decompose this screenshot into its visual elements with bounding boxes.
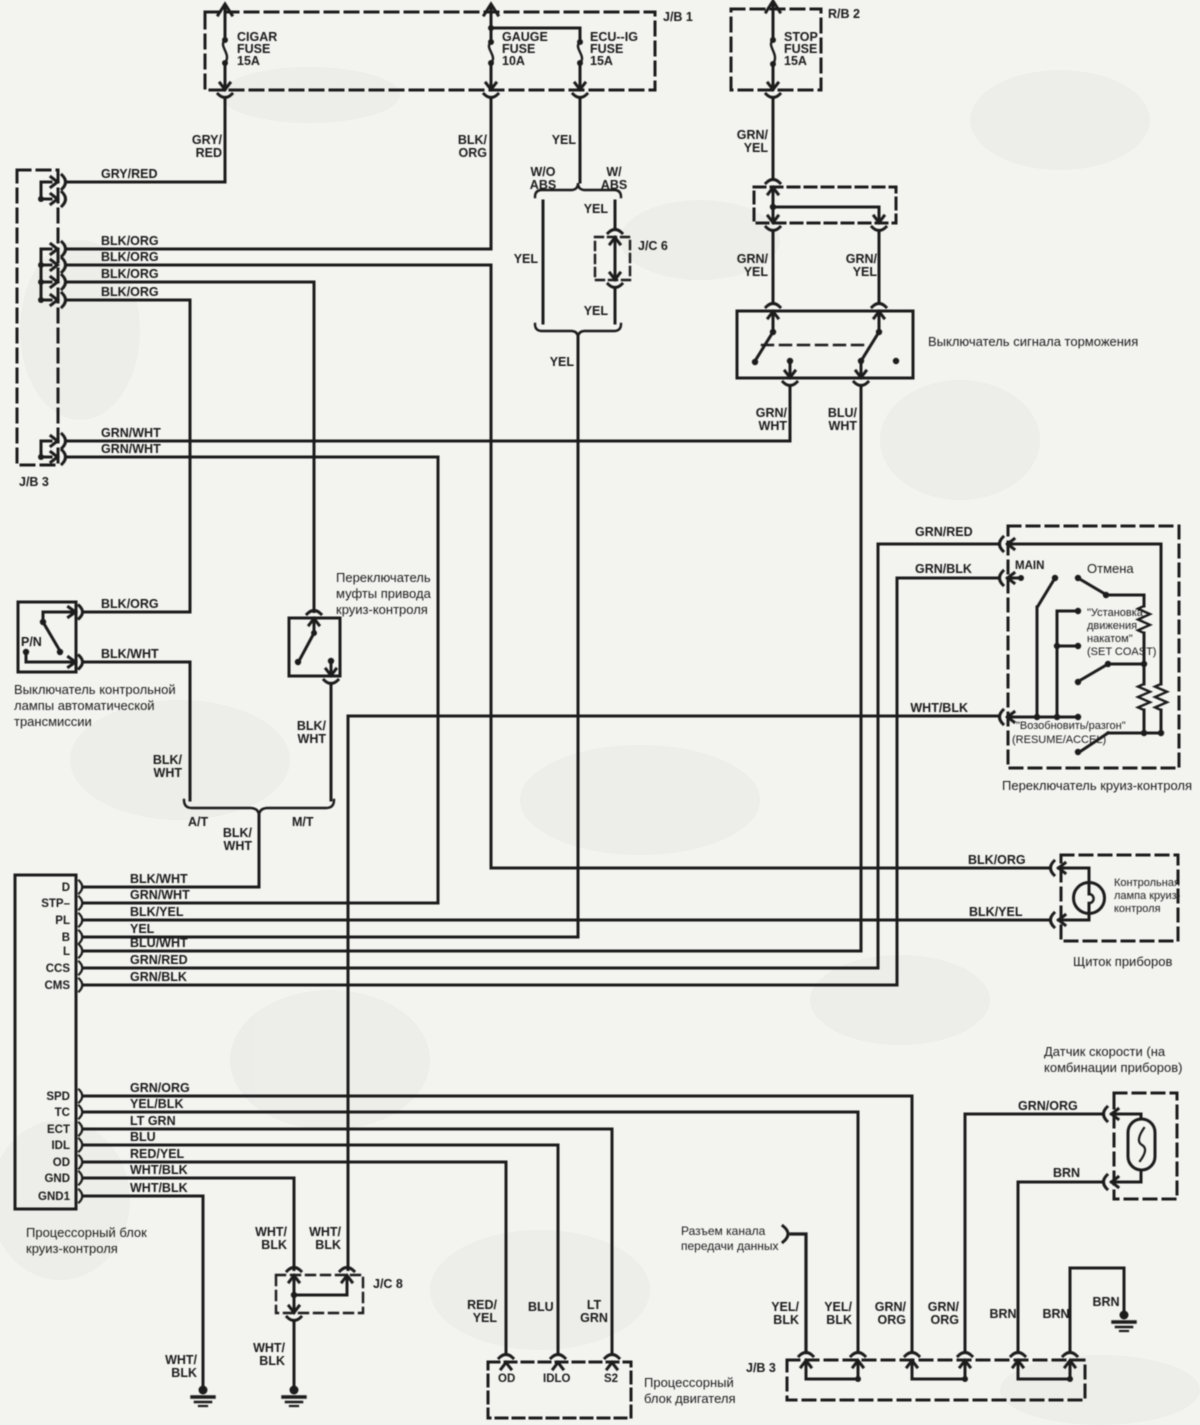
svg-text:Контрольная: Контрольная [1114,877,1180,889]
resistor R1 cancel [1138,595,1150,667]
svg-text:GRN/WHT: GRN/WHT [130,888,190,902]
wire LT GRN terminal ECT to engine ECU [84,1114,612,1355]
svg-text:GRN/: GRN/ [756,406,788,420]
connector BRN sensor exit [1104,1175,1119,1189]
speed sensor dashed box [1114,1093,1177,1199]
terminal D [62,881,83,895]
svg-text:S2: S2 [604,1373,618,1385]
svg-text:лампы автоматической: лампы автоматической [14,698,155,713]
wire GRN/YEL left to brake switch [737,231,780,319]
wire GRY/RED label [66,167,226,182]
cruise indicator lamp [1059,868,1181,920]
svg-text:ECT: ECT [47,1124,70,1136]
svg-text:OD: OD [53,1157,70,1169]
terminal TC [55,1106,83,1120]
svg-text:GRN/RED: GRN/RED [915,525,973,539]
speed sensor label [1044,1044,1182,1075]
svg-text:BLK/ORG: BLK/ORG [101,285,159,299]
svg-text:BLK/ORG: BLK/ORG [101,234,159,248]
wire GRN/BLK cruise switch to terminal CMS [84,562,1000,985]
svg-text:YEL: YEL [584,202,609,216]
svg-text:10A: 10A [502,54,525,68]
svg-text:J/B 3: J/B 3 [746,1361,776,1375]
svg-text:BLK/: BLK/ [153,753,183,767]
svg-text:трансмиссии: трансмиссии [14,714,92,729]
resume/accel label [1012,720,1126,746]
svg-text:(RESUME/ACCEL): (RESUME/ACCEL) [1012,734,1106,746]
wire GRY/RED cigar fuse to J/B3 [66,98,225,183]
svg-text:GRN/: GRN/ [737,252,769,266]
J/B3 connector pair GRN/WHT [38,434,66,464]
svg-text:ORG: ORG [931,1313,959,1327]
svg-text:ORG: ORG [878,1313,906,1327]
svg-text:STP–: STP– [41,898,70,910]
svg-text:YEL/BLK: YEL/BLK [130,1097,183,1111]
svg-text:"Установка: "Установка [1087,607,1144,619]
svg-text:J/C 8: J/C 8 [373,1277,403,1291]
brake switch mechanical link [762,344,870,346]
resume/accel switch [1075,730,1164,755]
terminal STP- [41,897,82,911]
svg-text:круиз-контроля: круиз-контроля [26,1241,118,1256]
svg-text:ABS: ABS [530,178,556,192]
svg-text:GND1: GND1 [38,1191,71,1203]
wire BLK/ORG 1 to gauge fuse line [66,234,492,249]
svg-text:WHT: WHT [829,419,858,433]
J/B3 bottom connector pair GRN/ORG [905,1353,972,1383]
svg-text:GRN/ORG: GRN/ORG [130,1081,190,1095]
svg-text:Щиток приборов: Щиток приборов [1073,954,1172,969]
svg-text:YEL: YEL [473,1311,498,1325]
connector WHT/BLK entry [1000,710,1015,724]
svg-text:LT GRN: LT GRN [130,1114,176,1128]
svg-text:J/C 6: J/C 6 [638,239,668,253]
junction connector J/C 6 [584,230,668,324]
svg-text:A/T: A/T [188,815,209,829]
wire WHT/BLK terminal GND to J/C8 [84,1163,294,1270]
svg-text:BLK/ORG: BLK/ORG [968,853,1026,867]
svg-text:WHT/BLK: WHT/BLK [130,1163,188,1177]
svg-text:WHT: WHT [154,766,183,780]
svg-text:Выключатель сигнала торможения: Выключатель сигнала торможения [928,334,1138,349]
fuse GAUGE FUSE 10A [484,4,548,98]
wire branch gauge to ECU-IG fuse [491,28,580,42]
svg-text:BRN: BRN [1042,1307,1069,1321]
svg-text:BLK/: BLK/ [297,719,327,733]
svg-text:BLK/YEL: BLK/YEL [969,905,1023,919]
P/N switch box [18,602,76,672]
svg-text:BLU/: BLU/ [828,406,858,420]
svg-text:Процессорный: Процессорный [644,1375,734,1390]
svg-text:GRN/: GRN/ [846,252,878,266]
svg-text:GRN/WHT: GRN/WHT [101,426,161,440]
svg-text:SPD: SPD [46,1091,70,1103]
svg-text:B: B [62,932,70,944]
svg-text:BLU/WHT: BLU/WHT [130,936,188,950]
wire BLK/ORG P/N switch [84,597,191,612]
svg-text:накатом": накатом" [1087,633,1133,645]
svg-text:TC: TC [55,1107,70,1119]
wire inside resume [1008,714,1082,720]
svg-text:WHT/: WHT/ [165,1353,197,1367]
svg-text:YEL: YEL [552,133,577,147]
svg-text:WHT/BLK: WHT/BLK [910,701,968,715]
wire BLU/WHT brake switch to terminal L [84,386,861,952]
wire label YEL/BLK data link [771,1300,799,1327]
wire RED/YEL terminal OD to engine ECU [84,1147,506,1355]
instrument panel dashed box [1061,855,1178,969]
cancel switch Otmena [1075,561,1144,598]
svg-text:ABS: ABS [601,178,627,192]
svg-text:Выключатель контрольной: Выключатель контрольной [14,682,176,697]
ground J/C8 [283,1386,305,1407]
connector GRN/BLK entry MAIN [1000,560,1045,585]
svg-text:W/: W/ [606,165,622,179]
svg-text:15A: 15A [784,54,807,68]
svg-text:BLK: BLK [171,1366,197,1380]
svg-text:15A: 15A [237,54,260,68]
svg-text:CMS: CMS [44,980,70,992]
cruise actuator clutch switch box [289,611,340,677]
clutch switch contacts [295,619,338,684]
wire GRN/ORG terminal SPD to bottom J/B3 [84,1081,912,1353]
label automatic transmission switch [14,682,176,729]
svg-text:BLK/ORG: BLK/ORG [101,597,159,611]
svg-text:WHT/BLK: WHT/BLK [130,1181,188,1195]
svg-text:BLK/: BLK/ [458,133,488,147]
wire GRN/ORG to speed sensor [965,1099,1104,1353]
junction block J/B 3 bottom [746,1360,1085,1400]
wire BLK/WHT clutch to M/T brace [297,684,331,801]
data link connector label [681,1224,779,1253]
engine processor block box [488,1362,736,1418]
svg-text:WHT/: WHT/ [255,1225,287,1239]
svg-text:BLU: BLU [130,1130,156,1144]
wire BLK/ORG 2 [66,250,492,265]
wire YEL/BLK terminal TC to bottom J/B3 [84,1097,858,1353]
svg-text:15A: 15A [590,54,613,68]
junction block J/B 1 [205,10,693,90]
svg-text:Отмена: Отмена [1087,561,1134,576]
svg-text:WHT: WHT [759,419,788,433]
svg-text:GRN/: GRN/ [737,128,769,142]
wire GRN/WHT brake switch to J/B3 [66,386,790,442]
wire GRN/WHT 2 to terminal STP [66,442,439,903]
svg-text:BLK: BLK [773,1313,799,1327]
svg-text:GRN/WHT: GRN/WHT [101,442,161,456]
brake light switch box [737,311,1138,378]
wire BRN to ground right [1070,1268,1124,1353]
speed sensor element [1112,1114,1156,1182]
resistor R2 [1138,664,1150,733]
svg-text:BLU: BLU [528,1300,554,1314]
terminal GND1 [38,1190,82,1204]
svg-text:RED/: RED/ [467,1298,497,1312]
svg-text:ORG: ORG [459,146,487,160]
svg-text:CCS: CCS [46,963,71,975]
svg-text:BRN: BRN [1092,1295,1119,1309]
svg-text:передачи данных: передачи данных [681,1239,779,1253]
svg-text:Разъем канала: Разъем канала [681,1224,766,1238]
clutch switch label [336,570,432,617]
svg-text:(SET COAST): (SET COAST) [1087,646,1156,658]
terminal B [62,931,83,945]
cruise control processor block box [15,875,147,1256]
wire BLK/WHT brace to terminal D [84,816,259,887]
terminal ECT [47,1123,82,1137]
svg-text:BLK/ORG: BLK/ORG [101,267,159,281]
svg-text:WHT/: WHT/ [309,1225,341,1239]
wire YEL to terminal B [84,338,578,937]
fuse ECU-IG FUSE 15A [573,30,638,98]
ground right BRN [1113,1311,1135,1332]
wire WHT/BLK J/C8 to ground [253,1321,294,1387]
wire BLK/ORG 4 to P/N switch [66,285,191,612]
connector BLK/YEL lamp entry [969,905,1065,927]
svg-text:"Возобновить/разгон": "Возобновить/разгон" [1016,720,1126,732]
svg-text:GRN/BLK: GRN/BLK [915,562,972,576]
resistor R3 [1155,684,1167,733]
connector BLK/ORG lamp entry [1051,861,1066,875]
terminal PL [55,914,82,928]
wire BLU terminal IDL to engine ECU [84,1130,558,1355]
svg-text:J/B 3: J/B 3 [19,475,49,489]
svg-text:YEL: YEL [744,141,769,155]
J/B3 bottom connector pair YEL/BLK [799,1353,865,1383]
connector GRN/RED entry [1000,537,1015,551]
terminal GND [44,1172,82,1186]
junction connector J/C 8 [276,1268,403,1321]
svg-text:BRN: BRN [989,1307,1016,1321]
wire YEL w/ abs upper [584,201,615,230]
brake switch left contact [752,312,797,386]
ground GND1 [192,1386,214,1407]
svg-text:R/B 2: R/B 2 [828,7,860,21]
svg-text:BLK/YEL: BLK/YEL [130,905,184,919]
terminal CMS [44,979,82,993]
svg-text:RED: RED [196,146,222,160]
wire BLK/YEL terminal PL to lamp [84,905,1051,920]
terminal OD [53,1156,83,1170]
set coast branch [1054,608,1081,717]
wire GRN/YEL right to brake switch [846,231,886,319]
junction box above brake switch [754,180,896,231]
P/N switch contacts [23,606,83,669]
svg-text:Процессорный блок: Процессорный блок [26,1225,147,1240]
wire BLK/ORG to cruise lamp [491,853,1051,868]
J/B3 bottom connector pair BRN [1011,1353,1077,1383]
svg-text:YEL: YEL [584,304,609,318]
svg-text:BLK/ORG: BLK/ORG [101,250,159,264]
svg-text:D: D [62,882,70,894]
svg-text:YEL/: YEL/ [824,1300,852,1314]
wire WHT/BLK terminal GND1 to ground [84,1181,203,1386]
svg-text:GRY/: GRY/ [192,133,223,147]
svg-text:Переключатель круиз-контроля: Переключатель круиз-контроля [1002,778,1192,793]
svg-text:WHT: WHT [298,732,327,746]
brace W/O ABS vs W/ ABS [530,165,627,197]
svg-text:WHT: WHT [224,839,253,853]
svg-text:комбинации приборов): комбинации приборов) [1044,1060,1182,1075]
svg-text:P/N: P/N [21,635,42,649]
svg-text:блок двигателя: блок двигателя [644,1391,736,1406]
J/B3 connector quad BLK/ORG [38,242,66,307]
svg-text:LT: LT [587,1298,602,1312]
svg-text:OD: OD [498,1373,515,1385]
wire inside cruise box top [1008,544,1162,684]
svg-text:круиз-контроля: круиз-контроля [336,602,428,617]
wire BRN sensor to bottom J/B3 [1018,1166,1104,1353]
svg-text:YEL: YEL [514,252,539,266]
wire label RED/YEL [467,1298,497,1325]
svg-text:контроля: контроля [1114,903,1161,915]
terminal L [63,945,82,959]
junction block J/B 3 left [17,170,58,489]
wire WHT/BLK long resume wire [309,701,999,1270]
svg-text:YEL: YEL [744,265,769,279]
svg-text:YEL: YEL [550,355,575,369]
wire BLK/WHT P/N to A/T brace [84,647,191,800]
svg-text:YEL: YEL [130,922,155,936]
svg-text:MAIN: MAIN [1015,560,1044,572]
svg-text:IDLO: IDLO [543,1373,571,1385]
svg-text:BLK: BLK [261,1238,287,1252]
svg-text:PL: PL [55,915,70,927]
svg-text:BLK: BLK [315,1238,341,1252]
svg-text:BRN: BRN [1053,1166,1080,1180]
wire label GRN/ORG spd [875,1300,907,1327]
svg-text:GRN: GRN [580,1311,608,1325]
svg-text:YEL/: YEL/ [771,1300,799,1314]
svg-text:GRY/RED: GRY/RED [101,167,158,181]
svg-text:движения: движения [1087,620,1137,632]
svg-text:BLK: BLK [259,1354,285,1368]
brace A/T M/T [184,800,334,829]
svg-text:GRN/: GRN/ [875,1300,907,1314]
connector GRN/ORG sensor entry [1104,1107,1119,1121]
wire GRN/RED cruise switch to terminal CCS [84,525,1000,968]
wire BLK/ORG 3 to clutch switch [66,267,315,612]
svg-text:BLK/: BLK/ [223,826,253,840]
terminal IDL [51,1139,82,1153]
svg-text:J/B 1: J/B 1 [663,10,693,24]
wire YEL w/o abs branch [514,201,543,323]
svg-text:BLK/WHT: BLK/WHT [101,647,159,661]
brake switch right contact [854,312,899,386]
engine ECU connector entries [499,1355,619,1370]
svg-text:WHT/: WHT/ [253,1341,285,1355]
wire label YEL/BLK TC [824,1300,852,1327]
svg-text:GRN/: GRN/ [928,1300,960,1314]
svg-text:BLK/WHT: BLK/WHT [130,872,188,886]
svg-text:M/T: M/T [292,815,314,829]
terminal SPD [46,1090,82,1104]
svg-text:лампа круиз-: лампа круиз- [1114,890,1181,902]
svg-text:GRN/BLK: GRN/BLK [130,970,187,984]
fuse CIGAR FUSE 15A [218,4,277,98]
svg-text:L: L [63,946,70,958]
relay block R/B 2 [731,7,860,90]
set coast label [1087,607,1156,658]
terminal CCS [46,962,83,976]
svg-text:GND: GND [44,1173,70,1185]
wire YEL from ECU-IG fuse [552,98,580,183]
wire BLK/ORG vertical from gauge fuse [458,98,491,869]
svg-text:IDL: IDL [51,1140,70,1152]
wire label LT GRN [580,1298,608,1325]
svg-text:BLK: BLK [826,1313,852,1327]
svg-text:муфты привода: муфты привода [336,586,432,601]
set coast switch contact [1075,661,1144,685]
svg-text:W/O: W/O [531,165,556,179]
fuse STOP FUSE 15A [766,1,818,98]
cruise control switch box [1002,526,1192,793]
wire GRN/YEL from stop fuse [737,98,773,180]
brace abs merge bottom [535,324,621,338]
wire label GRN/ORG sensor [928,1300,960,1327]
svg-text:GRN/ORG: GRN/ORG [1018,1099,1078,1113]
svg-text:Датчик скорости (на: Датчик скорости (на [1044,1044,1166,1059]
svg-text:RED/YEL: RED/YEL [130,1147,185,1161]
MAIN switch [1037,575,1058,717]
svg-text:Переключатель: Переключатель [336,570,431,585]
J/B3 connector pair GRY/RED [38,175,66,206]
svg-text:YEL: YEL [853,265,878,279]
data link connector [783,1226,806,1353]
svg-text:GRN/RED: GRN/RED [130,953,188,967]
